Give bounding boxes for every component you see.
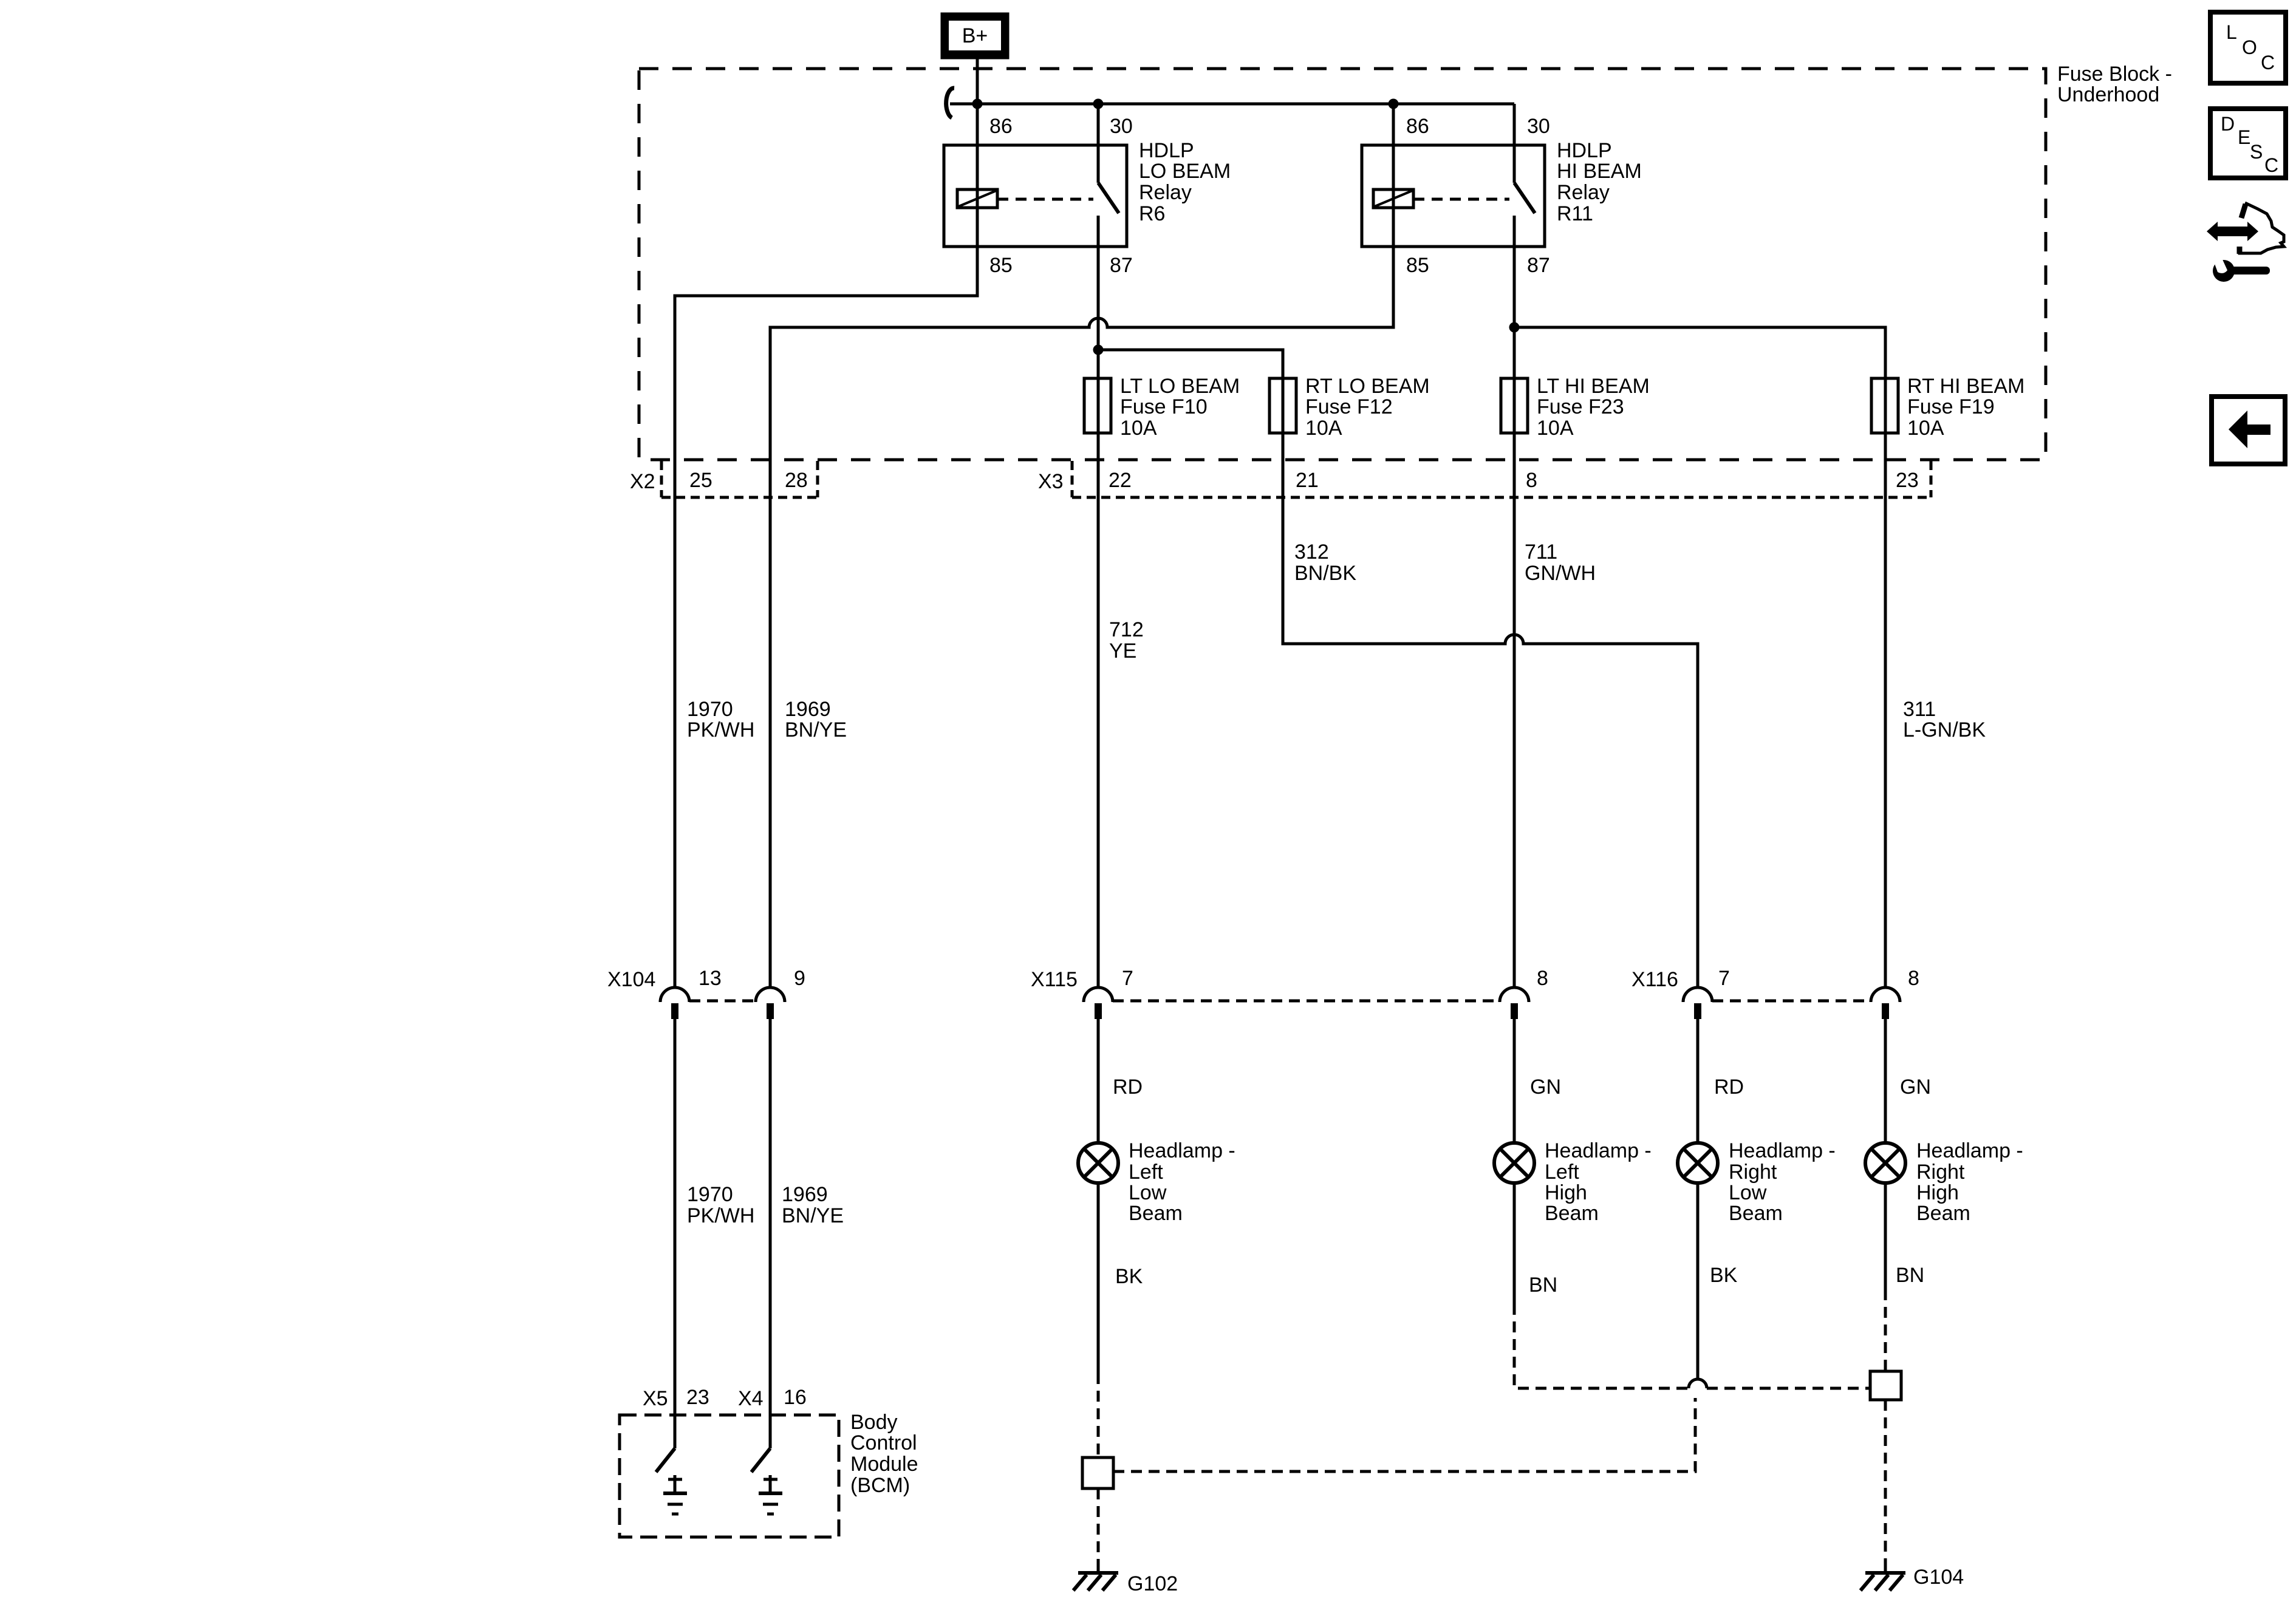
wire RD to right low lamp <box>1696 1019 1700 1143</box>
label Body Control Module <box>850 1411 918 1497</box>
label X2 pin 25 <box>689 469 712 492</box>
wire B+ feed <box>976 59 979 104</box>
svg-text:BN/BK: BN/BK <box>1294 562 1356 585</box>
svg-text:23: 23 <box>686 1386 709 1409</box>
BCM switch X5-23 <box>656 1448 675 1472</box>
label X3 pin 22 <box>1109 469 1132 492</box>
svg-text:HDLP: HDLP <box>1557 139 1612 162</box>
label BK right <box>1710 1264 1738 1287</box>
label X4 pin 16 <box>784 1386 807 1409</box>
svg-text:LT HI BEAM: LT HI BEAM <box>1537 375 1650 398</box>
label wire 311 L-GN/BK <box>1903 698 1986 742</box>
svg-text:Module: Module <box>850 1453 918 1476</box>
label fuse F12 <box>1305 375 1430 440</box>
svg-text:85: 85 <box>1406 254 1429 277</box>
svg-text:R11: R11 <box>1557 202 1593 225</box>
svg-text:O: O <box>2242 36 2257 58</box>
label connector X116 <box>1631 968 1678 991</box>
svg-text:Right: Right <box>1729 1161 1777 1184</box>
connector X104 terminal 13 <box>660 987 689 1019</box>
relay R6 box <box>944 145 1127 247</box>
svg-text:Headlamp -: Headlamp - <box>1129 1139 1235 1162</box>
svg-text:30: 30 <box>1527 115 1550 138</box>
icon back arrow box <box>2212 397 2285 464</box>
svg-text:Underhood: Underhood <box>2057 83 2159 106</box>
svg-text:HI BEAM: HI BEAM <box>1557 160 1642 183</box>
label X116 pin 8 <box>1908 967 1919 990</box>
svg-text:PK/WH: PK/WH <box>687 1204 754 1227</box>
BCM dashed box <box>620 1415 839 1537</box>
connector X104 dashed line <box>689 1000 756 1003</box>
label wire 711 GN/WH <box>1525 540 1596 585</box>
label headlamp right low <box>1729 1139 1836 1225</box>
svg-text:312: 312 <box>1294 540 1329 564</box>
wire R11 pin87 to headlamp column <box>1513 247 1516 987</box>
splice S2 <box>1870 1371 1901 1400</box>
svg-text:311: 311 <box>1903 698 1936 721</box>
svg-text:Body: Body <box>850 1411 898 1434</box>
svg-text:23: 23 <box>1896 469 1919 492</box>
connector X115 terminal 7 <box>1084 987 1113 1019</box>
svg-text:1970: 1970 <box>687 698 733 721</box>
fuse F19 <box>1871 378 1898 433</box>
svg-text:X104: X104 <box>607 968 655 991</box>
icon vehicle outline <box>2240 203 2284 254</box>
label BN right <box>1896 1264 1924 1287</box>
label wire 712 YE <box>1109 618 1144 663</box>
wire B+ bus <box>950 103 1514 106</box>
svg-text:BN/YE: BN/YE <box>782 1204 844 1227</box>
label X3 pin 21 <box>1296 469 1319 492</box>
svg-text:E: E <box>2238 126 2250 148</box>
svg-text:Beam: Beam <box>1729 1202 1783 1225</box>
svg-text:Right: Right <box>1916 1161 1965 1184</box>
label connector X4 <box>738 1387 764 1410</box>
svg-text:Beam: Beam <box>1129 1202 1183 1225</box>
label BN left <box>1529 1273 1557 1297</box>
svg-text:G104: G104 <box>1913 1566 1964 1589</box>
label R6 pin 86 <box>989 115 1013 138</box>
svg-text:30: 30 <box>1110 115 1133 138</box>
wire BK below left low lamp <box>1097 1183 1100 1373</box>
svg-text:8: 8 <box>1526 469 1537 492</box>
wire F12 branch <box>1098 350 1698 987</box>
fuse F23 <box>1501 378 1528 433</box>
ground G104 <box>1860 1561 1905 1590</box>
label X115 pin 8 <box>1537 967 1548 990</box>
label GN right <box>1900 1076 1931 1099</box>
label X3 pin 8 <box>1526 469 1537 492</box>
svg-text:Fuse Block -: Fuse Block - <box>2057 63 2172 86</box>
wire R11 pin86 coil feed <box>1392 104 1395 247</box>
svg-text:Fuse F10: Fuse F10 <box>1120 395 1208 418</box>
BCM switch X4-16 <box>751 1448 770 1472</box>
svg-text:87: 87 <box>1110 254 1133 277</box>
wire R6 pin30 <box>1097 104 1100 183</box>
dashed wire right high to splice S2 <box>1884 1289 1887 1371</box>
relay R11 box <box>1362 145 1545 247</box>
svg-text:87: 87 <box>1527 254 1550 277</box>
BCM internal ground left <box>663 1475 687 1514</box>
headlamp left high beam <box>1494 1143 1534 1183</box>
label headlamp right high <box>1916 1139 2023 1225</box>
svg-text:7: 7 <box>1718 967 1730 990</box>
label connector X115 <box>1031 968 1078 991</box>
power symbol B+ box <box>941 13 1009 59</box>
label X104 pin 9 <box>794 967 805 990</box>
svg-text:B+: B+ <box>962 24 988 47</box>
label R11 pin 30 <box>1527 115 1550 138</box>
svg-text:BN/YE: BN/YE <box>785 718 847 742</box>
svg-text:GN: GN <box>1900 1076 1931 1099</box>
icon wrench <box>2213 257 2270 282</box>
svg-text:Headlamp -: Headlamp - <box>1545 1139 1652 1162</box>
svg-text:BN: BN <box>1896 1264 1924 1287</box>
svg-text:Fuse F12: Fuse F12 <box>1305 395 1393 418</box>
svg-text:X116: X116 <box>1631 968 1678 991</box>
wire R11 pin30 <box>1513 104 1516 183</box>
svg-text:L: L <box>2226 21 2237 43</box>
svg-text:G102: G102 <box>1127 1572 1178 1595</box>
svg-text:16: 16 <box>784 1386 807 1409</box>
label X5 pin 23 <box>686 1386 709 1409</box>
label wire 1969 BN/YE upper <box>785 698 847 742</box>
svg-text:GN/WH: GN/WH <box>1525 562 1596 585</box>
dashed wire splice S2 to ground <box>1884 1400 1887 1562</box>
connector X116 terminal 7 <box>1683 987 1712 1019</box>
headlamp right high beam <box>1865 1143 1905 1183</box>
label BK left <box>1115 1265 1143 1288</box>
svg-text:LT LO BEAM: LT LO BEAM <box>1120 375 1240 398</box>
svg-text:9: 9 <box>794 967 805 990</box>
svg-text:7: 7 <box>1122 967 1133 990</box>
svg-text:PK/WH: PK/WH <box>687 718 754 742</box>
dashed wire S1 to right low <box>1113 1398 1695 1471</box>
label R6 pin 87 <box>1110 254 1133 277</box>
wire F19 branch <box>1514 327 1885 987</box>
svg-text:Control: Control <box>850 1431 917 1454</box>
svg-text:D: D <box>2221 113 2235 135</box>
svg-text:Fuse F23: Fuse F23 <box>1537 395 1624 418</box>
connector X104 terminal 9 <box>756 987 785 1019</box>
label R11 pin 86 <box>1406 115 1429 138</box>
svg-text:86: 86 <box>989 115 1013 138</box>
label fuse F19 <box>1907 375 2024 440</box>
label wire 1970 PK/WH upper <box>687 698 754 742</box>
connector X116 terminal 8 <box>1871 987 1900 1019</box>
relay R6 coil <box>957 189 997 208</box>
svg-text:1970: 1970 <box>687 1183 733 1206</box>
svg-text:Fuse F19: Fuse F19 <box>1907 395 1995 418</box>
splice S1 <box>1082 1457 1113 1488</box>
wire GN to left high lamp <box>1513 1019 1516 1143</box>
node junction F19 branch <box>1509 322 1520 333</box>
svg-text:1969: 1969 <box>785 698 831 721</box>
svg-text:Relay: Relay <box>1139 181 1192 204</box>
svg-text:10A: 10A <box>1907 417 1944 440</box>
svg-text:22: 22 <box>1109 469 1132 492</box>
headlamp right low beam <box>1678 1143 1718 1183</box>
svg-text:86: 86 <box>1406 115 1429 138</box>
label GN left <box>1530 1076 1561 1099</box>
icon vehicle double arrow <box>2207 222 2258 241</box>
label X116 pin 7 <box>1718 967 1730 990</box>
node bus junction B+ <box>972 99 983 109</box>
dashed wire left low to splice <box>1097 1373 1100 1457</box>
label Fuse Block - Underhood <box>2057 63 2172 106</box>
label connector X3 <box>1038 470 1064 493</box>
wire BN below right high lamp <box>1884 1183 1887 1289</box>
svg-text:GN: GN <box>1530 1076 1561 1099</box>
icon LOC box <box>2210 12 2286 83</box>
svg-text:10A: 10A <box>1120 417 1157 440</box>
label R6 pin 30 <box>1110 115 1133 138</box>
wire GN to right high lamp <box>1884 1019 1887 1143</box>
svg-text:X2: X2 <box>630 470 655 493</box>
relay R6 link <box>997 198 1093 201</box>
connector X3 pin box <box>1072 461 1931 497</box>
label G102 <box>1127 1572 1178 1595</box>
relay R6 switch <box>1098 183 1119 247</box>
wire R6 pin86 coil feed <box>976 104 979 247</box>
svg-text:High: High <box>1545 1181 1587 1204</box>
label fuse F10 <box>1120 375 1240 440</box>
svg-text:R6: R6 <box>1139 202 1165 225</box>
svg-text:8: 8 <box>1537 967 1548 990</box>
label wire 312 BN/BK <box>1294 540 1356 585</box>
svg-text:RD: RD <box>1714 1076 1744 1099</box>
svg-text:X4: X4 <box>738 1387 764 1410</box>
icon DESC box <box>2210 109 2286 178</box>
svg-text:Low: Low <box>1729 1181 1767 1204</box>
node bus junction R6 pin30 <box>1093 99 1104 109</box>
relay R11 link <box>1413 198 1509 201</box>
svg-text:C: C <box>2261 52 2275 73</box>
label R6 pin 85 <box>989 254 1013 277</box>
svg-text:S: S <box>2250 141 2263 163</box>
label X115 pin 7 <box>1122 967 1133 990</box>
svg-text:RD: RD <box>1113 1076 1143 1099</box>
label X2 pin 28 <box>785 469 808 492</box>
relay R11 switch <box>1514 183 1535 247</box>
svg-text:Headlamp -: Headlamp - <box>1729 1139 1836 1162</box>
svg-text:1969: 1969 <box>782 1183 828 1206</box>
svg-text:25: 25 <box>689 469 712 492</box>
label R11 pin 85 <box>1406 254 1429 277</box>
node junction F12 branch <box>1093 345 1104 355</box>
label RD left <box>1113 1076 1143 1099</box>
svg-text:711: 711 <box>1525 540 1557 564</box>
svg-text:High: High <box>1916 1181 1959 1204</box>
label fuse F23 <box>1537 375 1650 440</box>
svg-text:Headlamp -: Headlamp - <box>1916 1139 2023 1162</box>
fuse F12 <box>1269 378 1296 433</box>
svg-text:28: 28 <box>785 469 808 492</box>
svg-text:Beam: Beam <box>1916 1202 1970 1225</box>
wire R11 pin85 to X2-28 <box>770 247 1393 987</box>
ground G102 <box>1073 1561 1118 1590</box>
connector X115 terminal 8 <box>1500 987 1529 1019</box>
BCM internal ground right <box>759 1475 782 1514</box>
svg-text:Low: Low <box>1129 1181 1167 1204</box>
wire BK below right low lamp <box>1696 1183 1700 1379</box>
svg-text:X3: X3 <box>1038 470 1064 493</box>
svg-text:L-GN/BK: L-GN/BK <box>1903 718 1986 742</box>
wire X104-13 to BCM <box>674 1019 677 1448</box>
wire BN below left high lamp <box>1513 1183 1516 1304</box>
label relay R6 name <box>1139 139 1231 225</box>
label headlamp left high <box>1545 1139 1652 1225</box>
svg-text:BK: BK <box>1710 1264 1738 1287</box>
svg-text:X5: X5 <box>643 1387 668 1410</box>
label R11 pin 87 <box>1527 254 1550 277</box>
dashed wire left high to splice S2 <box>1514 1304 1870 1388</box>
svg-text:BN: BN <box>1529 1273 1557 1297</box>
svg-text:Left: Left <box>1129 1161 1163 1184</box>
connector X116 dashed line <box>1712 1000 1871 1003</box>
label G104 <box>1913 1566 1964 1589</box>
label connector X104 <box>607 968 655 991</box>
svg-text:10A: 10A <box>1305 417 1342 440</box>
wire RD to left low lamp <box>1097 1019 1100 1143</box>
connector X115 dashed line <box>1113 1000 1500 1003</box>
label headlamp left low <box>1129 1139 1235 1225</box>
label X3 pin 23 <box>1896 469 1919 492</box>
svg-text:YE: YE <box>1109 639 1136 663</box>
label RD right <box>1714 1076 1744 1099</box>
svg-text:BK: BK <box>1115 1265 1143 1288</box>
svg-text:C: C <box>2264 154 2278 176</box>
svg-text:LO BEAM: LO BEAM <box>1139 160 1231 183</box>
svg-text:85: 85 <box>989 254 1013 277</box>
label connector X5 <box>643 1387 668 1410</box>
dashed wire splice S1 to ground <box>1097 1488 1100 1562</box>
svg-text:HDLP: HDLP <box>1139 139 1194 162</box>
fuse F10 <box>1084 378 1111 433</box>
wire X104-9 to BCM <box>769 1019 772 1448</box>
svg-text:X115: X115 <box>1031 968 1078 991</box>
svg-text:13: 13 <box>699 967 722 990</box>
label relay R11 name <box>1557 139 1642 225</box>
svg-text:RT HI BEAM: RT HI BEAM <box>1907 375 2024 398</box>
svg-text:712: 712 <box>1109 618 1144 641</box>
label wire 1969 BN/YE lower <box>782 1183 844 1227</box>
svg-text:RT LO BEAM: RT LO BEAM <box>1305 375 1430 398</box>
svg-text:(BCM): (BCM) <box>850 1474 910 1497</box>
connector X2 pin box <box>661 461 818 497</box>
fuse block underhood dashed box <box>639 69 2046 460</box>
label connector X2 <box>630 470 655 493</box>
wire R6 pin87 to headlamp column <box>1097 247 1100 987</box>
svg-text:Relay: Relay <box>1557 181 1610 204</box>
svg-text:10A: 10A <box>1537 417 1574 440</box>
wire R6 pin85 to X2-25 <box>675 247 977 987</box>
svg-text:21: 21 <box>1296 469 1319 492</box>
node bus junction R11 pin86 <box>1389 99 1399 109</box>
inline clip symbol <box>946 88 954 118</box>
relay R11 coil <box>1373 189 1413 208</box>
svg-text:Left: Left <box>1545 1161 1579 1184</box>
label X104 pin 13 <box>699 967 722 990</box>
svg-text:8: 8 <box>1908 967 1919 990</box>
label wire 1970 PK/WH lower <box>687 1183 754 1227</box>
headlamp left low beam <box>1078 1143 1118 1183</box>
svg-text:Beam: Beam <box>1545 1202 1599 1225</box>
